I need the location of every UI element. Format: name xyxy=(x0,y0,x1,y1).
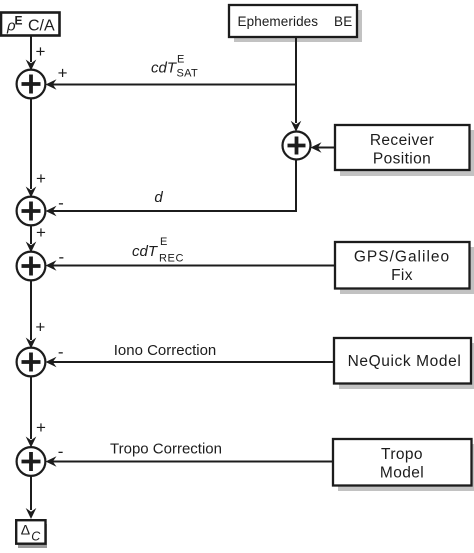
box shadow Ephemerides BE xyxy=(234,10,362,42)
summing node S5 xyxy=(17,447,46,476)
plus sign at S4 vertical input xyxy=(35,318,45,337)
wire cdT_SAT from Ephemerides vertical line to S1 xyxy=(52,84,296,86)
plus sign at S3 vertical input xyxy=(36,223,46,242)
svg-text:E: E xyxy=(160,236,167,248)
wire S1 down to S2 xyxy=(30,98,32,189)
arrowhead into S1 top xyxy=(26,60,37,71)
minus sign at S5 horizontal input xyxy=(58,442,64,461)
plus sign at S1 vertical input xyxy=(36,42,46,61)
svg-text:C: C xyxy=(31,530,41,544)
arrowhead into S5 right xyxy=(46,456,57,467)
box shadow Delta C xyxy=(18,524,47,548)
svg-text:Δ: Δ xyxy=(21,521,30,537)
box GPS/Galileo Fix xyxy=(335,242,470,289)
wire S6 down then left to S2 (geometric distance d) xyxy=(52,160,296,212)
svg-text:+: + xyxy=(35,318,45,337)
wire NeQuick Model to S4 (iono correction) xyxy=(52,361,333,363)
svg-text:+: + xyxy=(36,223,46,242)
arrowhead into S1 right xyxy=(46,79,57,90)
arrowhead into S6 top xyxy=(291,121,302,132)
svg-text:Model: Model xyxy=(380,465,424,482)
svg-text:+: + xyxy=(36,418,46,437)
arrowhead into S6 right xyxy=(311,142,322,153)
svg-text:C/A: C/A xyxy=(28,18,55,35)
summing node S3 xyxy=(17,252,46,281)
plus sign at S5 vertical input xyxy=(36,418,46,437)
svg-text:BE: BE xyxy=(334,14,352,29)
svg-text:cdT: cdT xyxy=(151,60,178,77)
svg-text:Position: Position xyxy=(373,151,431,168)
svg-text:NeQuick Model: NeQuick Model xyxy=(348,353,462,370)
plus sign at S2 vertical input xyxy=(36,169,46,188)
arrowhead into S3 top xyxy=(26,242,37,253)
box shadow GPS/Galileo Fix xyxy=(340,247,474,294)
arrowhead into S2 right xyxy=(46,206,57,217)
wire rho box down to summing node S1 xyxy=(30,36,32,62)
svg-text:SAT: SAT xyxy=(177,68,198,80)
box shadow Tropo Model xyxy=(338,444,474,491)
svg-text:+: + xyxy=(58,63,68,82)
arrowhead into S5 top xyxy=(26,437,37,448)
box Delta C (corrected output) xyxy=(16,520,45,544)
wire S4 down to S5 xyxy=(30,376,32,439)
arrowhead into S3 right xyxy=(46,260,57,271)
svg-text:-: - xyxy=(58,342,64,361)
box rho E C/A (input pseudorange) xyxy=(1,13,60,36)
plus sign at S1 horizontal input xyxy=(58,63,68,82)
svg-text:REC: REC xyxy=(159,253,184,265)
svg-text:Ephemerides: Ephemerides xyxy=(238,14,319,29)
label cdT E REC xyxy=(132,236,184,265)
box Tropo Model xyxy=(333,439,472,486)
arrowhead into S2 top xyxy=(26,187,37,198)
box Ephemerides BE xyxy=(229,5,357,37)
arrowhead into output box top xyxy=(26,508,37,519)
svg-text:d: d xyxy=(154,189,163,206)
summing node S2 xyxy=(17,197,46,226)
svg-text:E: E xyxy=(15,14,23,28)
svg-text:cdT: cdT xyxy=(132,243,159,260)
box shadow NeQuick Model xyxy=(339,343,474,389)
wire S2 down to S3 xyxy=(30,225,32,244)
svg-text:+: + xyxy=(36,169,46,188)
svg-text:Tropo Correction: Tropo Correction xyxy=(110,441,222,458)
summing node S6 (receiver position combine) xyxy=(283,132,311,160)
box NeQuick Model xyxy=(334,338,471,384)
arrowhead into S4 right xyxy=(46,357,57,368)
box shadow Receiver Position xyxy=(340,130,474,176)
label cdT E SAT xyxy=(151,54,198,80)
label Tropo Correction xyxy=(110,441,222,458)
wire S3 down to S4 xyxy=(30,280,32,340)
wire GPS/Galileo Fix to S3 (receiver clock term) xyxy=(52,265,334,267)
minus sign at S2 horizontal input xyxy=(58,193,64,212)
svg-text:GPS/Galileo: GPS/Galileo xyxy=(354,249,450,266)
wire S5 down to output box xyxy=(30,476,32,511)
label Iono Correction xyxy=(114,342,217,359)
summing node S4 xyxy=(17,348,46,377)
minus sign at S3 horizontal input xyxy=(58,247,64,266)
svg-text:+: + xyxy=(36,42,46,61)
minus sign at S4 horizontal input xyxy=(58,342,64,361)
box Receiver Position xyxy=(335,125,470,170)
wire Tropo Model to S5 (tropo correction) xyxy=(52,461,332,463)
svg-text:Fix: Fix xyxy=(391,267,413,284)
svg-text:-: - xyxy=(58,193,64,212)
arrowhead into S4 top xyxy=(26,338,37,349)
wire Receiver Position to S6 xyxy=(317,147,334,149)
svg-text:-: - xyxy=(58,442,64,461)
svg-text:Iono Correction: Iono Correction xyxy=(114,342,217,359)
svg-text:Receiver: Receiver xyxy=(370,132,434,149)
wire Ephemerides BE down to summing node S6 xyxy=(295,37,297,123)
svg-text:-: - xyxy=(58,247,64,266)
summing node S1 xyxy=(17,70,46,99)
svg-text:E: E xyxy=(177,54,184,66)
svg-text:Tropo: Tropo xyxy=(381,446,423,463)
label d xyxy=(154,189,163,206)
